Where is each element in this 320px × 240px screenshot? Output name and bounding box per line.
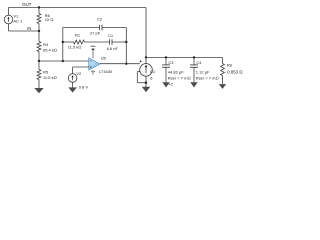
- op-amp U5: [89, 58, 100, 70]
- svg-text:AC 1: AC 1: [13, 18, 23, 23]
- resistor R6: [37, 8, 41, 32]
- junction feedback / op-amp output: [125, 63, 127, 65]
- svg-text:C1: C1: [108, 33, 114, 38]
- capacitor C1: [110, 39, 112, 44]
- junction feedback / R1 C2 branch: [62, 41, 64, 43]
- wire C1 to node: [112, 41, 126, 43]
- wire G1 top pin: [145, 57, 147, 63]
- wire OUT rail (top): [9, 7, 147, 9]
- junction divider tap: [38, 60, 40, 62]
- label R5: [43, 70, 57, 81]
- label G1 value: [150, 75, 153, 80]
- resistor R8: [221, 57, 225, 84]
- svg-text:C2: C2: [97, 17, 103, 22]
- wire IN (V1 minus to divider): [9, 30, 40, 32]
- junction load rail C4: [193, 56, 195, 58]
- ground below R8: [219, 84, 226, 89]
- svg-text:C4: C4: [196, 60, 202, 65]
- current source G1: [140, 64, 153, 77]
- wire R1 to C1: [85, 41, 110, 43]
- ground below R5: [34, 88, 43, 93]
- capacitor C4: [190, 57, 198, 82]
- ground below G1: [142, 87, 150, 92]
- label R6: [45, 13, 54, 22]
- wire load rail: [146, 56, 223, 58]
- svg-text:LT1630: LT1630: [99, 69, 113, 74]
- svg-text:0.8 V: 0.8 V: [79, 84, 89, 89]
- capacitor C3: [162, 57, 170, 82]
- junction top rail / R6: [38, 6, 40, 8]
- label R8: [227, 62, 233, 67]
- label U5: [101, 55, 107, 60]
- wire C2 branch right: [102, 28, 126, 43]
- svg-text:OUT: OUT: [22, 2, 32, 7]
- label C1: [108, 33, 114, 38]
- svg-text:0.853 Ω: 0.853 Ω: [227, 69, 242, 74]
- svg-text:11.5 kΩ: 11.5 kΩ: [43, 75, 57, 80]
- wire OUT vertical drop: [145, 8, 147, 58]
- ground below C3: [162, 82, 169, 87]
- voltage source V1: [4, 8, 13, 32]
- junction IN / R6 / R4: [38, 30, 40, 32]
- capacitor C2: [100, 25, 102, 30]
- svg-text:11.5 kΩ: 11.5 kΩ: [68, 45, 82, 50]
- svg-text:44.82 µF: 44.82 µF: [168, 70, 184, 75]
- svg-text:U5: U5: [101, 55, 107, 60]
- voltage source V2: [68, 74, 77, 88]
- svg-text:Rser = 7 mΩ: Rser = 7 mΩ: [168, 75, 191, 80]
- label V2 value: [79, 84, 89, 89]
- svg-text:C3: C3: [168, 60, 174, 65]
- junction OUT / load rail: [145, 56, 147, 58]
- label R8 value: [227, 69, 242, 74]
- junction C1 C2 right node: [125, 41, 127, 43]
- svg-text:R1: R1: [75, 32, 81, 37]
- label C2: [97, 17, 103, 22]
- resistor R1: [74, 40, 85, 44]
- ground below V2: [68, 87, 77, 92]
- wire C2 branch left: [63, 27, 100, 29]
- label C4: [196, 60, 202, 65]
- svg-text:R4: R4: [43, 42, 49, 47]
- resistor R4: [37, 31, 41, 61]
- wire op-amp non-inverting input to V2: [73, 67, 89, 74]
- junction G1 loop / bottom pin: [145, 82, 147, 84]
- junction load rail C3: [165, 56, 167, 58]
- svg-text:V2: V2: [76, 71, 82, 76]
- wire divider tap to op-amp inverting input: [39, 60, 89, 62]
- wire feedback right vertical: [125, 42, 127, 64]
- svg-text:6.6 nF: 6.6 nF: [107, 46, 119, 51]
- svg-text:27 pF: 27 pF: [90, 30, 101, 35]
- label V2: [76, 71, 82, 76]
- power rail V+ of op-amp: [91, 46, 96, 58]
- net label IN: [27, 26, 31, 31]
- label R1: [75, 32, 81, 37]
- label C3: [168, 60, 174, 65]
- wire op-amp output: [100, 63, 140, 65]
- svg-text:10 Ω: 10 Ω: [45, 17, 54, 22]
- label G1: [150, 69, 156, 74]
- svg-text:1.12 µF: 1.12 µF: [196, 70, 210, 75]
- label LT1630: [99, 69, 113, 74]
- label R1 value: [68, 45, 82, 50]
- label C1 value: [107, 46, 119, 51]
- svg-text:R5: R5: [43, 70, 49, 75]
- wire R1 branch: [63, 41, 74, 43]
- label C2 value: [90, 30, 101, 35]
- svg-text:65.4 kΩ: 65.4 kΩ: [43, 48, 57, 53]
- label C3 value: [168, 70, 191, 87]
- wire G1 bottom pin: [145, 76, 147, 87]
- svg-text:Rser = 7 mΩ: Rser = 7 mΩ: [196, 75, 219, 80]
- ground below C4: [190, 82, 197, 87]
- svg-text:R8: R8: [227, 62, 233, 67]
- wire feedback left vertical: [62, 28, 64, 62]
- ground V- of op-amp: [91, 70, 95, 74]
- label C4 value: [196, 70, 219, 81]
- plus mark G1 control: [140, 60, 142, 62]
- svg-text:G1: G1: [150, 69, 156, 74]
- svg-text:IN: IN: [27, 26, 31, 31]
- label R4: [43, 42, 57, 53]
- wire G1 control loop: [137, 72, 146, 83]
- resistor R5: [37, 61, 41, 88]
- net label OUT: [22, 2, 32, 7]
- label V1: [13, 14, 23, 24]
- junction feedback / inverting input: [62, 60, 64, 62]
